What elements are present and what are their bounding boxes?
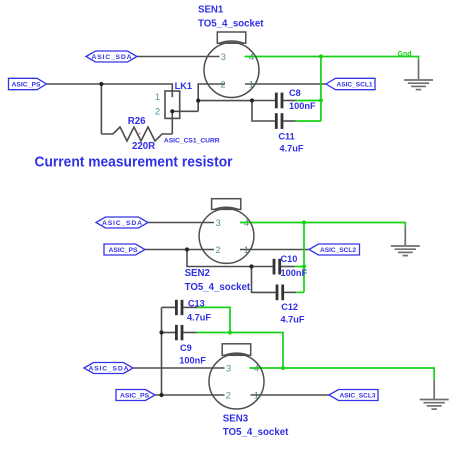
svg-text:C9: C9	[180, 343, 192, 353]
svg-text:C10: C10	[281, 254, 298, 264]
svg-text:C13: C13	[188, 299, 205, 309]
svg-text:3: 3	[221, 52, 226, 62]
svg-text:2: 2	[215, 245, 220, 255]
svg-text:LK1: LK1	[175, 81, 192, 91]
svg-text:Gnd: Gnd	[398, 51, 412, 58]
svg-text:ASIC_SDA: ASIC_SDA	[92, 54, 132, 61]
svg-text:ASIC_SCL1: ASIC_SCL1	[337, 82, 373, 89]
svg-text:2: 2	[155, 107, 160, 117]
svg-text:ASIC_SDA: ASIC_SDA	[102, 220, 142, 227]
svg-text:TO5_4_socket: TO5_4_socket	[198, 18, 264, 29]
svg-text:3: 3	[216, 218, 221, 228]
svg-text:ASIC_PS: ASIC_PS	[11, 82, 41, 89]
svg-text:ASIC_PS: ASIC_PS	[108, 247, 138, 254]
svg-text:ASIC_SDA: ASIC_SDA	[89, 366, 129, 373]
svg-text:220R: 220R	[132, 141, 155, 152]
svg-text:C8: C8	[289, 88, 301, 98]
svg-text:TO5_4_socket: TO5_4_socket	[223, 427, 289, 438]
svg-text:C11: C11	[278, 132, 294, 142]
svg-text:SEN1: SEN1	[198, 4, 224, 15]
svg-text:4.7uF: 4.7uF	[281, 314, 305, 324]
svg-text:100nF: 100nF	[179, 356, 206, 366]
svg-text:Current measurement resistor: Current measurement resistor	[35, 153, 233, 170]
svg-text:100nF: 100nF	[289, 101, 316, 111]
svg-text:4.7uF: 4.7uF	[187, 312, 211, 322]
svg-text:TO5_4_socket: TO5_4_socket	[185, 282, 251, 293]
svg-text:SEN2: SEN2	[185, 268, 210, 279]
svg-text:ASIC_SCL2: ASIC_SCL2	[320, 247, 356, 254]
svg-text:ASIC_CS1_CURR: ASIC_CS1_CURR	[164, 137, 220, 144]
svg-text:ASIC_SCL3: ASIC_SCL3	[340, 393, 376, 400]
svg-text:1: 1	[155, 92, 160, 102]
svg-text:SEN3: SEN3	[223, 414, 249, 425]
svg-text:2: 2	[226, 390, 231, 400]
svg-text:ASIC_PS: ASIC_PS	[120, 393, 150, 400]
svg-text:R26: R26	[128, 116, 146, 127]
svg-text:C12: C12	[281, 302, 298, 312]
svg-text:3: 3	[226, 363, 231, 373]
svg-text:100nF: 100nF	[281, 268, 308, 278]
svg-text:4.7uF: 4.7uF	[280, 144, 304, 154]
